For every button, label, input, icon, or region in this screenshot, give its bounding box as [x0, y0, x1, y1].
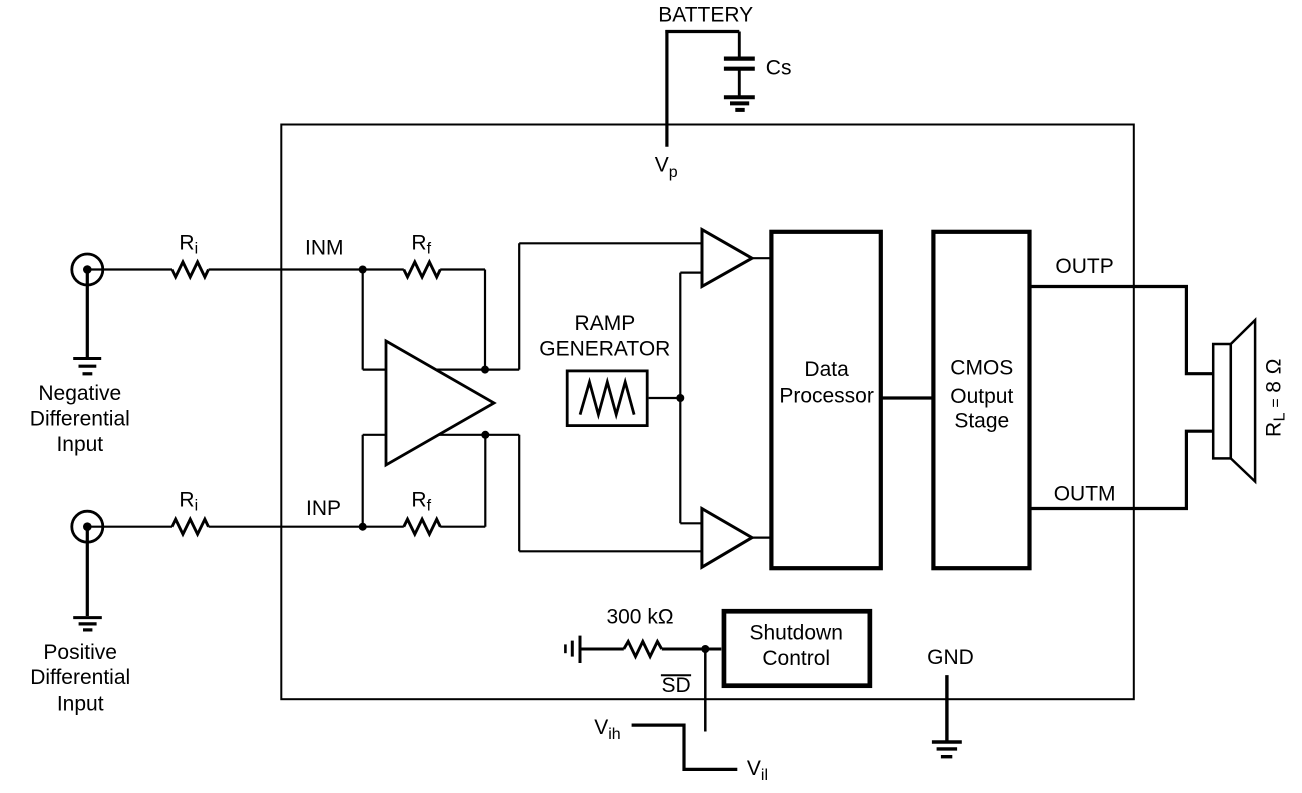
svg-text:OUTM: OUTM — [1054, 482, 1116, 505]
svg-text:OUTP: OUTP — [1055, 255, 1113, 278]
svg-text:Differential: Differential — [30, 666, 130, 689]
svg-text:SD: SD — [662, 674, 691, 697]
svg-text:GENERATOR: GENERATOR — [539, 337, 670, 360]
svg-text:Control: Control — [762, 647, 830, 670]
svg-text:INM: INM — [305, 237, 344, 260]
svg-text:Shutdown: Shutdown — [749, 621, 842, 644]
svg-text:Negative: Negative — [38, 382, 121, 405]
svg-text:Data: Data — [804, 358, 849, 381]
svg-text:RAMP: RAMP — [575, 312, 636, 335]
svg-text:Positive: Positive — [43, 641, 117, 664]
svg-text:Stage: Stage — [954, 410, 1009, 433]
svg-text:Output: Output — [950, 385, 1013, 408]
svg-text:Cs: Cs — [766, 57, 792, 80]
svg-text:CMOS: CMOS — [950, 357, 1013, 380]
svg-text:Differential: Differential — [30, 407, 130, 430]
svg-text:Input: Input — [56, 433, 103, 456]
svg-text:GND: GND — [927, 646, 974, 669]
svg-text:Input: Input — [57, 693, 104, 716]
svg-text:BATTERY: BATTERY — [658, 3, 753, 26]
svg-text:INP: INP — [306, 497, 341, 520]
svg-text:Processor: Processor — [779, 384, 874, 407]
svg-text:300 kΩ: 300 kΩ — [606, 606, 673, 629]
